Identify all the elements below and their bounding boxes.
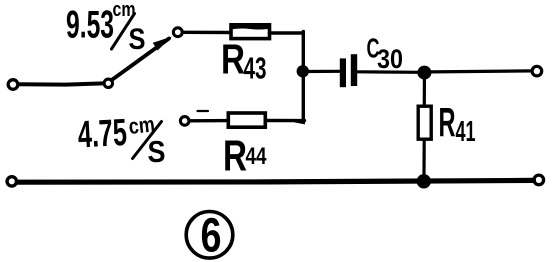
terminal T4 (bottom-left) [7, 177, 16, 186]
capacitor C30 plate 2 [351, 54, 357, 86]
wire: R43 to corner [270, 31, 304, 34]
switch SW arm arrowhead [153, 37, 172, 51]
label 9.53 cm/s [66, 0, 146, 56]
label R44 [223, 132, 267, 181]
node A junction (R43/R44 to C30) [297, 65, 309, 77]
switch SW pivot node [104, 79, 112, 87]
wire: R41 to node C [422, 140, 425, 176]
wire: node A to C30 [303, 70, 340, 73]
label 4.75 cm/s [77, 111, 166, 169]
svg-text:9.53: 9.53 [66, 4, 114, 47]
figure number circle [186, 212, 233, 259]
node C junction (R41 to bottom rail) [417, 174, 431, 188]
label 4.75 cm/s fraction slash [133, 122, 162, 159]
resistor R44 body [228, 113, 265, 127]
capacitor C30 plate 1 [340, 58, 346, 87]
node B junction (C30 / R41 / output) [417, 66, 431, 80]
svg-text:4.75: 4.75 [77, 112, 128, 157]
label C30 [367, 33, 404, 75]
svg-text:S: S [148, 134, 166, 169]
svg-text:6: 6 [201, 210, 222, 262]
resistor R41 body [418, 106, 431, 139]
wire: C30 to node B [358, 70, 420, 74]
wire: T1 to switch pivot [19, 83, 104, 84]
svg-text:R: R [221, 36, 245, 83]
svg-text:44: 44 [246, 143, 268, 170]
resistor R43 body [231, 25, 270, 39]
terminal T5 (bottom-right) [534, 175, 544, 185]
terminal T1 (top-left input) [8, 80, 18, 90]
wire: vertical bus R43/R44 join [296, 32, 303, 123]
terminal T2 (4.75 cm/s input) [180, 117, 189, 126]
terminal T3 (top-right output) [532, 66, 542, 76]
wire: R44 to vertical bus [266, 119, 305, 122]
svg-text:R: R [223, 132, 247, 181]
svg-text:43: 43 [244, 51, 267, 86]
label R43 [221, 36, 267, 86]
wire: bottom rail [18, 180, 534, 182]
stray mark above R44 wire [198, 110, 209, 112]
wire: node B to R41 [423, 76, 426, 106]
svg-text:R: R [439, 99, 456, 145]
switch SW arm [112, 39, 169, 80]
resistor R43 inner smudge [231, 23, 269, 29]
wire: T2 to R44 [190, 119, 229, 123]
svg-text:41: 41 [456, 116, 476, 148]
svg-text:S: S [129, 23, 146, 56]
wire: switch contact to R43 [184, 31, 232, 35]
wire: node B to T3 [431, 71, 532, 72]
label 9.53 cm/s fraction slash [112, 14, 135, 50]
label R41 [439, 99, 476, 148]
svg-text:30: 30 [377, 44, 403, 74]
switch contact node (9.53 cm/s position) [173, 28, 182, 37]
